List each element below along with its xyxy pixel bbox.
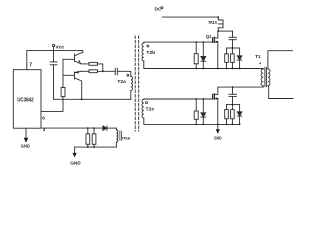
winding T2b (142, 43, 144, 61)
winding T2a (131, 76, 133, 90)
resistor R7 (194, 111, 198, 119)
ground drop middle (74, 147, 76, 153)
resistor R2 (89, 62, 97, 65)
wire R3 right lead to C2 (97, 70, 115, 72)
wire drain node to snubber cap (218, 30, 232, 32)
diode D3 (202, 99, 204, 113)
svg-text:T1: T1 (255, 54, 261, 59)
wire Q3 emitter to R2 (81, 63, 89, 65)
ground arrow IC (25, 128, 27, 138)
junction dot snubber2 cap (232, 86, 234, 88)
wire Q1 source down (217, 42, 219, 69)
junction dot snubber cap tap (232, 47, 234, 49)
resistor R9 (231, 110, 235, 119)
wire bases join (62, 59, 64, 87)
wire Q1 drain up (217, 31, 219, 38)
winding T1 secondary (268, 69, 270, 86)
wire R2 right lead (97, 64, 102, 71)
svg-text:GND: GND (214, 136, 222, 141)
diode D4 (239, 105, 241, 112)
capacitor C4 snubber plates (229, 93, 236, 95)
wire T2c bottom (144, 118, 240, 125)
resistor R6 (231, 54, 235, 63)
wire bottom return (75, 146, 117, 148)
wire Q3 collector (75, 52, 83, 55)
svg-text:Vcc: Vcc (55, 44, 64, 50)
resistor R3 (89, 70, 97, 73)
Q1 source arrow (215, 41, 217, 43)
wire snubber2 top bus (227, 104, 240, 106)
svg-text:TR1B: TR1B (122, 136, 130, 141)
junction dots main bus (195, 68, 197, 70)
diode D1 (202, 42, 204, 56)
svg-text:T2b: T2b (146, 50, 155, 55)
winding TR1A (218, 20, 223, 28)
wire T2c top (144, 98, 213, 100)
resistor R4 gate (194, 54, 198, 64)
junction dots pin3 wire (87, 127, 89, 129)
junction dot Vcc/C1 (53, 50, 55, 52)
wire TR1A bottom lead (217, 28, 219, 31)
diode D2 (239, 48, 241, 56)
junction dot driver output (102, 70, 104, 72)
resistor R8 (225, 110, 229, 119)
junction dot Q4 collector (81, 98, 83, 100)
wire T2b bottom to main bus (144, 61, 263, 68)
junction dot Q4 emitter arrow (75, 71, 79, 74)
capacitor C2 coupling plates (114, 68, 116, 75)
Q2 source arrow (215, 97, 217, 99)
svg-text:DC: DC (155, 7, 162, 13)
svg-text:GND: GND (21, 143, 30, 148)
svg-text:3: 3 (43, 127, 46, 132)
transistor Q2 MOSFET (212, 94, 214, 99)
phase dot T1 (260, 63, 261, 64)
ground arrow IC head (24, 138, 29, 143)
op-amp U1 UC3842 box (13, 70, 41, 129)
wire T2a bottom lead (130, 90, 132, 99)
junction dot DC corner (217, 16, 219, 18)
capacitor C1 plates (50, 61, 57, 63)
wire C1 bottom lead to return bus (54, 65, 131, 100)
junction dots T2b top wire (195, 41, 197, 43)
junction dot drain node (217, 30, 219, 32)
core T2 dashed lines (134, 36, 136, 131)
wire C1 top lead (53, 51, 55, 62)
wire snubber top bus (227, 47, 240, 49)
wire Vcc terminal lead (53, 47, 55, 51)
wire secondary top (268, 51, 293, 69)
winding T1 primary (261, 69, 263, 86)
wire DC input (162, 17, 218, 20)
junction dots T2c top wire (195, 98, 197, 100)
wire C2 to T2a (117, 71, 131, 76)
svg-text:T2a: T2a (117, 79, 126, 84)
svg-text:7: 7 (29, 63, 32, 69)
diode D5 (103, 126, 107, 130)
svg-text:T2c: T2c (146, 106, 155, 111)
wire pin3 (41, 127, 103, 129)
wire Q4 collector down to return bus (75, 78, 82, 99)
resistor R5 (225, 54, 229, 63)
transistor Q3 NPN base bar (74, 54, 76, 62)
junction dots T2c bottom wire (195, 124, 197, 126)
ground arrow Q2 head (216, 129, 220, 133)
ground arrow middle head (73, 153, 77, 158)
svg-text:6: 6 (42, 115, 45, 120)
transistor Q4 PNP base bar (74, 72, 76, 79)
svg-text:GND: GND (70, 160, 81, 166)
resistor R1 base (61, 87, 65, 96)
wire Q2 source down (217, 98, 219, 129)
wire Q2 drain up to T1 bottom (218, 87, 263, 95)
resistor R11 (92, 134, 96, 145)
junction dot Q3 emitter arrow (78, 60, 81, 64)
wire Q3 base (63, 58, 75, 60)
wire Q4 emitter (75, 71, 81, 73)
phase dot T2c (146, 102, 148, 104)
wire Q3 emitter (75, 61, 81, 64)
wire Q4 base (63, 74, 75, 76)
wire snubber2 cap lead (232, 87, 234, 94)
capacitor C3 snubber plates (229, 36, 236, 38)
terminal circle DC (161, 7, 163, 9)
phase dot T2b (147, 45, 149, 47)
winding TR1B (116, 130, 118, 142)
wire R4 leads (195, 42, 197, 54)
wire Q4 emitter to R3 (81, 70, 89, 72)
core TR1B lines (119, 131, 121, 140)
wire pin7 to Vcc rail (27, 51, 83, 70)
svg-text:Q1: Q1 (206, 34, 212, 39)
resistor R10 (86, 134, 90, 145)
svg-text:UC3842: UC3842 (17, 98, 34, 104)
wire R1 to pin6 (41, 97, 63, 112)
wire secondary bottom (268, 86, 293, 99)
winding T2c (142, 99, 144, 117)
wire T2b top (144, 41, 213, 44)
transistor Q1 MOSFET (212, 38, 214, 43)
terminal circle Vcc (52, 44, 54, 46)
core T1 lines (264, 67, 266, 86)
svg-text:TR1A: TR1A (208, 20, 218, 25)
phase dot T2a (127, 74, 129, 76)
